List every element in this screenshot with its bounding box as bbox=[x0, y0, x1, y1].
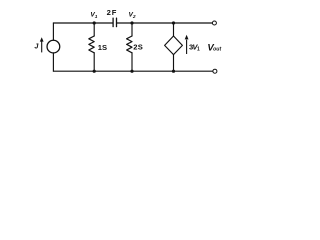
current source J circle bbox=[47, 40, 60, 53]
resistor 1S zigzag bbox=[89, 36, 94, 53]
wire top left segment bbox=[53, 22, 113, 24]
arrow of dependent source bbox=[185, 35, 189, 54]
wire resistor 1S to bottom bbox=[93, 53, 95, 71]
wire diamond top stub bbox=[173, 23, 175, 36]
wire resistor 2S to bottom bbox=[131, 53, 133, 71]
wire top right segment bbox=[117, 22, 213, 24]
wire node V1 stub bbox=[93, 23, 95, 36]
junction dot diamond top bbox=[172, 21, 175, 24]
terminal bottom right bbox=[213, 69, 217, 73]
svg-text:J: J bbox=[34, 42, 39, 51]
wire bottom bbox=[53, 70, 212, 72]
arrow of source J bbox=[40, 37, 44, 52]
wire left rail lower bbox=[52, 53, 54, 71]
svg-text:2: 2 bbox=[133, 43, 137, 52]
svg-text:3V1: 3V1 bbox=[189, 42, 200, 52]
capacitor 2F left plate bbox=[112, 18, 114, 26]
svg-text:V1: V1 bbox=[90, 12, 97, 21]
svg-text:F: F bbox=[112, 8, 117, 17]
wire diamond bottom stub bbox=[173, 55, 175, 72]
svg-text:Vout: Vout bbox=[207, 42, 221, 53]
dependent source diamond bbox=[165, 36, 183, 55]
junction dot node V1 top bbox=[93, 21, 96, 24]
resistor 2S zigzag bbox=[127, 36, 132, 53]
junction dot bottom at 1S bbox=[93, 70, 96, 73]
svg-text:V2: V2 bbox=[129, 12, 136, 21]
wire left rail upper bbox=[52, 23, 54, 40]
terminal top right bbox=[212, 21, 216, 25]
junction dot bottom at diamond bbox=[172, 70, 175, 73]
wire node V2 stub bbox=[131, 23, 133, 36]
capacitor 2F right plate bbox=[116, 18, 118, 26]
junction dot node V2 top bbox=[130, 21, 133, 24]
svg-text:S: S bbox=[102, 43, 107, 52]
svg-text:2: 2 bbox=[107, 8, 111, 17]
junction dot bottom at 2S bbox=[130, 70, 133, 73]
svg-text:S: S bbox=[138, 43, 143, 52]
